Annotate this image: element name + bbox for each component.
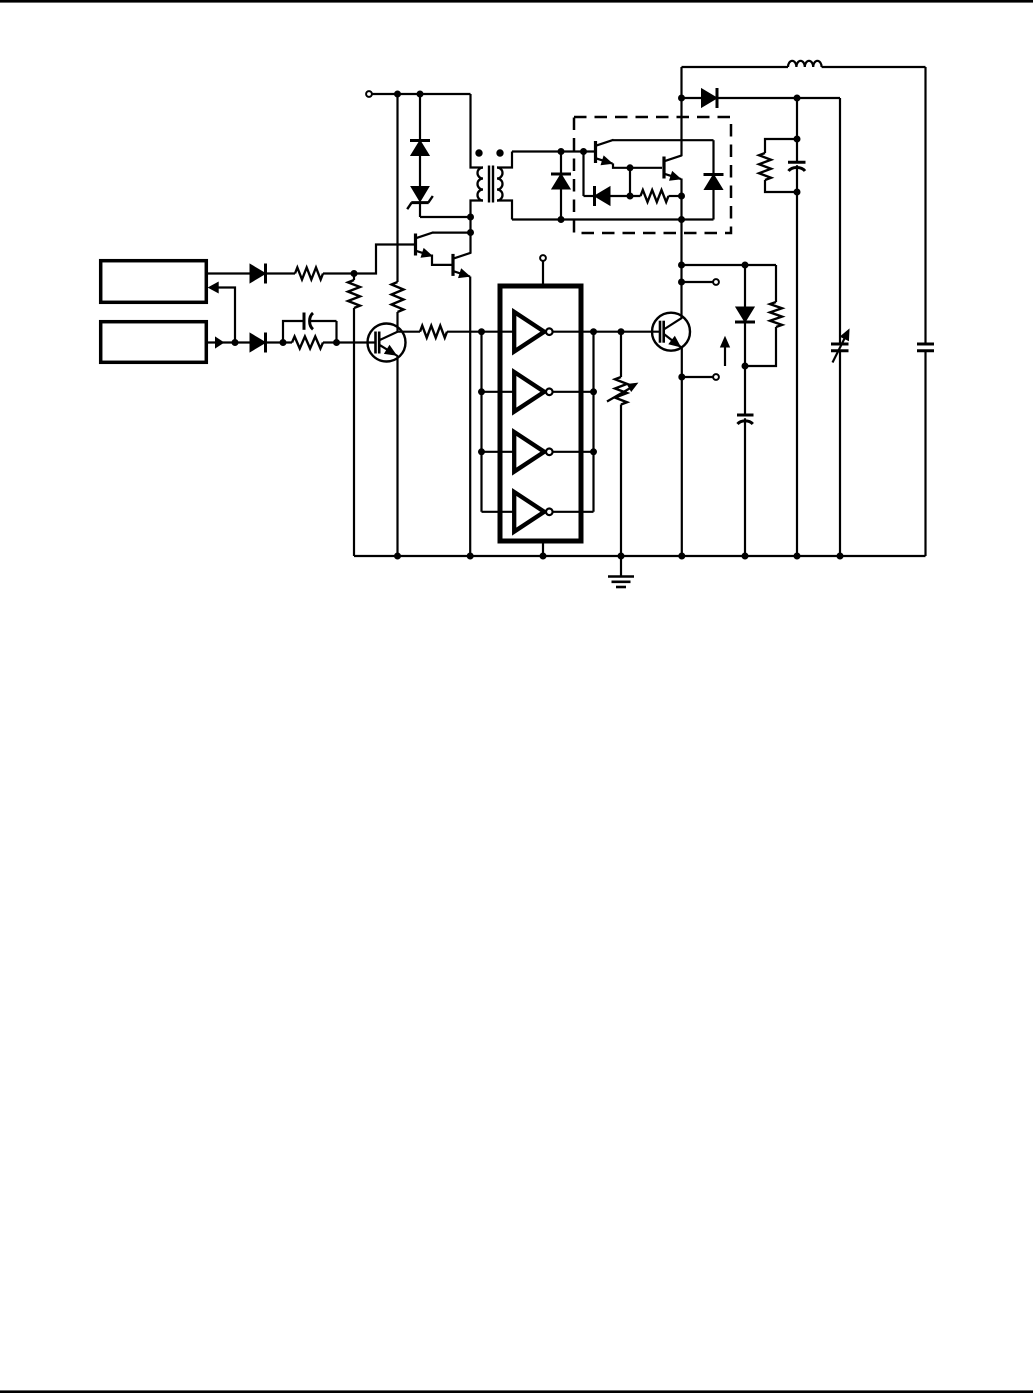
output bus xyxy=(592,332,594,512)
transformer T1 primary winding xyxy=(478,168,484,201)
wire xyxy=(775,265,777,302)
wire Q1 emitter to Q2 base xyxy=(432,255,452,265)
transformer phase dot primary xyxy=(475,149,482,156)
resistor R8 xyxy=(759,153,771,180)
wire Q5 collector line y140.5 xyxy=(613,139,714,141)
junction rail (681.8,556) xyxy=(678,553,685,560)
wire stub terminal 1 xyxy=(682,281,714,283)
junction (481.5,331.7) xyxy=(478,328,485,335)
wire xyxy=(552,511,594,513)
junction (561,219.5) xyxy=(558,216,565,223)
wire xyxy=(482,511,516,513)
diode D8 xyxy=(702,88,718,108)
junction (470.5,232.5) xyxy=(467,229,474,236)
wire xyxy=(796,192,798,556)
inverter U1C xyxy=(514,432,552,472)
wire top rail y67 xyxy=(682,66,789,68)
junction (745,366) xyxy=(742,363,749,370)
diode D1 xyxy=(410,141,430,156)
wire xyxy=(419,156,421,187)
transistor Q2 xyxy=(453,253,471,278)
U1 VCC pin xyxy=(540,255,546,283)
junction (797,98) xyxy=(794,95,801,102)
wire xyxy=(218,288,236,343)
wire xyxy=(620,405,622,557)
resistor R4 xyxy=(392,282,404,312)
diode D6 xyxy=(595,186,611,206)
wire upper input y273.5 xyxy=(207,272,251,274)
module outline (dashed) xyxy=(574,117,731,233)
wire xyxy=(323,272,354,274)
resistor R7 xyxy=(770,302,782,327)
inverter U1D xyxy=(514,492,552,532)
wire xyxy=(469,233,471,254)
ground symbol xyxy=(608,556,634,587)
wire xyxy=(839,351,841,556)
wire xyxy=(482,391,516,393)
wire to Q1 base xyxy=(354,245,414,274)
wire xyxy=(796,98,798,139)
junction (397.5,94) xyxy=(394,91,401,98)
diode D3 xyxy=(250,264,266,284)
junction (681.5,98) xyxy=(678,95,685,102)
junction (583.5,151.5) xyxy=(580,148,587,155)
page bottom rule xyxy=(0,1390,1033,1393)
current arrow annotation xyxy=(721,337,730,366)
wire primary top xyxy=(471,94,484,168)
wire Q6 emitter down xyxy=(680,179,682,319)
wire xyxy=(924,351,926,556)
wire secondary bottom xyxy=(497,201,512,220)
junction rail (543,556) xyxy=(540,553,547,560)
U1 GND pin xyxy=(542,544,544,557)
wire Q4 emitter xyxy=(681,348,683,557)
resistor R5 xyxy=(420,326,447,338)
wire xyxy=(552,331,621,333)
wire xyxy=(745,327,776,366)
variable capacitor C4 xyxy=(831,330,849,363)
wire xyxy=(629,168,631,196)
wire secondary bottom line y219.5 xyxy=(512,218,714,220)
capacitor C5 xyxy=(917,344,934,351)
junction (283,342.5) xyxy=(280,339,287,346)
wire xyxy=(744,265,746,307)
junction (681.8,377) xyxy=(678,374,685,381)
wire xyxy=(584,195,595,197)
zener D2 xyxy=(407,187,433,210)
junction rail (797,556) xyxy=(794,553,801,560)
junction (593.5,331.7) xyxy=(590,328,597,335)
junction (745,265) xyxy=(742,262,749,269)
junction (797,139) xyxy=(794,136,801,143)
junction (621,331.7) xyxy=(618,328,625,335)
junction (681.5,196) xyxy=(678,193,685,200)
wire y98 xyxy=(717,97,840,99)
inverter U1B xyxy=(514,372,552,412)
wire top rail y94 xyxy=(372,93,471,95)
junction rail (397.5,556) xyxy=(394,553,401,560)
junction (681.5,282) xyxy=(678,279,685,286)
junction (681.5,265) xyxy=(678,262,685,269)
wire xyxy=(765,180,797,192)
junction rail (745,556) xyxy=(742,553,749,560)
resistor R2 xyxy=(292,337,323,349)
wire xyxy=(396,94,398,282)
capacitor C2 xyxy=(788,139,806,192)
wire Q3 emitter xyxy=(396,356,398,557)
junction (630,167.8) xyxy=(627,164,634,171)
adjustable resistor R9 xyxy=(607,377,637,405)
junction (681.5,219.5) xyxy=(678,216,685,223)
wire xyxy=(420,203,471,217)
wire Q2 emitter xyxy=(469,277,471,557)
wire xyxy=(839,98,841,344)
transistor Q3 xyxy=(368,324,406,362)
junction rail (840,556) xyxy=(837,553,844,560)
wire secondary top line y151.5 xyxy=(512,150,594,152)
diode D7 xyxy=(704,140,724,219)
terminal T-lower xyxy=(713,374,719,380)
wire xyxy=(669,195,682,197)
wire xyxy=(482,451,516,453)
wire xyxy=(560,189,562,220)
wire xyxy=(620,332,622,377)
junction (235,342.5) xyxy=(232,339,239,346)
junction (420,94) xyxy=(417,91,424,98)
resistor R1 xyxy=(295,268,323,280)
wire xyxy=(822,67,926,344)
transistor Q5 xyxy=(596,140,614,165)
wire lower input y342.5 xyxy=(207,341,251,343)
wire xyxy=(682,97,702,99)
resistor R6 xyxy=(641,190,669,202)
wire xyxy=(765,139,797,153)
junction rail (621,556) xyxy=(618,553,625,560)
wire xyxy=(267,341,293,343)
wire xyxy=(482,331,516,333)
terminal T-upper xyxy=(713,279,719,285)
input bus xyxy=(480,332,482,512)
junction (561,151.5) xyxy=(558,148,565,155)
junction (593.5,451.8) xyxy=(590,448,597,455)
wire xyxy=(610,195,641,197)
junction rail (470.2,556) xyxy=(467,553,474,560)
junction (481.5,451.8) xyxy=(478,448,485,455)
wire xyxy=(398,331,421,333)
wire xyxy=(582,152,584,197)
resistor R3 xyxy=(348,274,360,557)
inverter U1A xyxy=(514,312,552,352)
wire xyxy=(396,312,398,332)
IC box U1 xyxy=(500,286,581,541)
wire xyxy=(744,323,746,367)
transformer T1 secondary winding xyxy=(497,168,503,201)
wire xyxy=(267,272,296,274)
page top rule xyxy=(0,0,1033,3)
block box B2 (input) xyxy=(101,322,207,363)
wire xyxy=(552,391,594,393)
wire ground rail y556 xyxy=(354,555,926,557)
transistor Q4 xyxy=(652,313,690,351)
junction (354,273.5) xyxy=(351,270,358,277)
diode D4 xyxy=(250,333,266,353)
wire secondary top xyxy=(497,152,512,168)
wire xyxy=(469,217,471,233)
capacitor C1 xyxy=(283,313,337,343)
wire xyxy=(419,94,421,140)
wire Q5 emitter to Q6 base xyxy=(613,163,662,167)
feedback arrow xyxy=(209,282,219,292)
transistor Q1 xyxy=(416,232,434,257)
wire xyxy=(560,152,562,175)
wire primary bottom xyxy=(471,201,484,218)
signal arrow xyxy=(216,337,224,347)
wire Q6 collector up xyxy=(680,67,682,156)
capacitor C3 xyxy=(737,366,754,556)
junction (797,192) xyxy=(794,189,801,196)
junction (630,196) xyxy=(627,193,634,200)
transformer phase dot secondary xyxy=(496,149,503,156)
wire Q1 collector xyxy=(433,232,471,234)
junction (593.5,391.8) xyxy=(590,388,597,395)
terminal VIN xyxy=(366,91,372,97)
wire xyxy=(323,341,376,343)
transformer T1 core xyxy=(489,166,493,203)
junction (481.5,391.8) xyxy=(478,388,485,395)
diode D5 xyxy=(551,174,571,189)
wire y265 xyxy=(682,264,777,266)
diode D9 xyxy=(735,307,755,322)
wire to Q4 base xyxy=(621,331,660,333)
transistor Q6 xyxy=(664,155,682,180)
junction (470.5,217) xyxy=(467,214,474,221)
block box B1 (input) xyxy=(101,261,207,303)
inductor L1 xyxy=(788,61,822,67)
junction (336.5,342.5) xyxy=(333,339,340,346)
wire stub terminal 2 xyxy=(682,376,713,378)
wire xyxy=(552,451,594,453)
wire xyxy=(447,331,482,333)
